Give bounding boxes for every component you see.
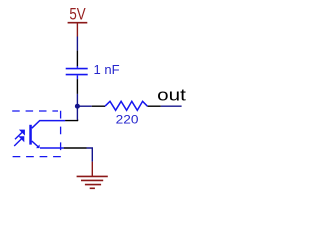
svg-text:220: 220 — [116, 113, 139, 127]
svg-text:out: out — [157, 87, 186, 105]
svg-text:5V: 5V — [69, 6, 85, 24]
svg-text:1 nF: 1 nF — [94, 63, 120, 77]
